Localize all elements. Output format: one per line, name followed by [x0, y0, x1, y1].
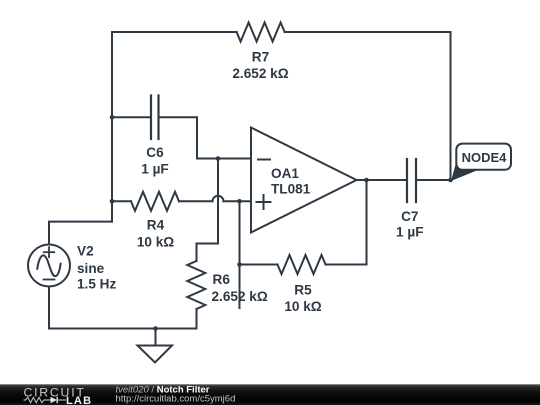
V2 minus sign — [44, 279, 55, 281]
svg-text:R7: R7 — [252, 50, 269, 65]
wire R4 left lead — [112, 200, 131, 202]
wire left rail jog to V2 — [49, 222, 112, 245]
ground symbol — [138, 346, 173, 363]
resistor R5 — [278, 255, 326, 274]
svg-text:1 µF: 1 µF — [396, 225, 423, 240]
logo diode — [51, 397, 58, 403]
svg-text:sine: sine — [77, 261, 105, 276]
junction node R4 left — [110, 199, 115, 204]
V2 plus sign — [44, 247, 54, 257]
junction node NODE4 — [448, 178, 453, 183]
V2 sine symbol — [37, 255, 60, 276]
svg-text:TL081: TL081 — [271, 182, 311, 197]
wire plus node stub down — [239, 201, 241, 308]
junction node plus input — [237, 199, 242, 204]
wire R5 left lead — [240, 264, 278, 266]
wire top-left segment — [112, 32, 237, 222]
svg-text:R6: R6 — [213, 272, 231, 287]
source V2 circle — [28, 245, 70, 287]
svg-text:V2: V2 — [77, 244, 94, 259]
NODE4 flag tail — [451, 161, 478, 181]
op-amp plus symbol — [257, 195, 271, 209]
junction node R5 left — [237, 262, 242, 267]
svg-text:NODE4: NODE4 — [462, 150, 508, 165]
op-amp OA1 triangle — [251, 128, 357, 233]
svg-text:http://circuitlab.com/c5ymj6d: http://circuitlab.com/c5ymj6d — [116, 394, 236, 405]
junction node ground — [153, 326, 158, 331]
footer bar — [0, 384, 540, 405]
wire C7 right lead — [416, 179, 451, 181]
svg-text:10 kΩ: 10 kΩ — [137, 235, 174, 250]
svg-text:LAB: LAB — [66, 395, 92, 405]
svg-text:1 µF: 1 µF — [141, 162, 168, 177]
svg-text:2.652 kΩ: 2.652 kΩ — [212, 289, 268, 304]
NODE4 flag bubble — [456, 144, 511, 170]
junction node minus input — [216, 156, 221, 161]
svg-text:1.5 Hz: 1.5 Hz — [77, 277, 116, 292]
wire hop over vertical — [213, 196, 224, 201]
wire top-right segment — [285, 32, 451, 180]
wire R4 to hop — [179, 200, 213, 202]
wire hop to plus input — [224, 200, 252, 202]
resistor R4 — [131, 192, 179, 211]
svg-text:C6: C6 — [146, 145, 164, 160]
wire R5 right lead up to output — [326, 180, 367, 265]
svg-text:R4: R4 — [147, 218, 165, 233]
op-amp minus symbol — [258, 159, 270, 161]
junction node C6 left — [110, 115, 115, 120]
junction node output — [364, 178, 369, 183]
resistor R7 — [237, 23, 285, 42]
wire output to C7 — [357, 179, 408, 181]
logo resistor squiggle — [24, 397, 51, 402]
capacitor C7 — [407, 159, 416, 202]
svg-text:C7: C7 — [401, 209, 418, 224]
svg-text:10 kΩ: 10 kΩ — [284, 299, 321, 314]
svg-text:OA1: OA1 — [271, 166, 299, 181]
wire V2 bottom to rail — [49, 287, 197, 329]
resistor R6 — [187, 261, 205, 309]
wire ground stub — [155, 329, 157, 346]
svg-text:2.652 kΩ: 2.652 kΩ — [232, 66, 288, 81]
wire R6 bottom lead — [196, 309, 198, 329]
capacitor C6 — [151, 96, 159, 140]
svg-text:R5: R5 — [294, 283, 312, 298]
wire minus node down to R6 — [197, 159, 219, 262]
wire C6 left lead — [112, 116, 151, 118]
wire C6 right to minus input — [159, 117, 252, 158]
